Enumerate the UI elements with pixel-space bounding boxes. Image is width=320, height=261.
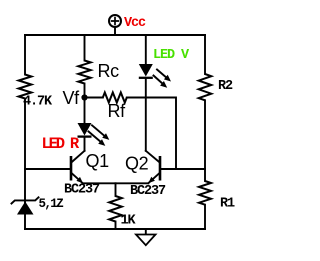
wire Vf to Rf: [88, 97, 103, 99]
wire top rail: [25, 34, 205, 36]
wire Q1 base: [25, 168, 71, 170]
ground: [136, 229, 156, 245]
wire Rc branch top: [84, 35, 86, 61]
svg-text:4.7K: 4.7K: [23, 95, 53, 110]
resistor Rf: [103, 93, 127, 103]
transistor Q1: [71, 151, 85, 184]
wire bottom rail: [25, 228, 205, 230]
svg-text:Q2: Q2: [125, 154, 149, 174]
node Vf junction dot: [81, 94, 87, 100]
resistor R1: [199, 181, 211, 205]
LED R light arrow 2: [89, 132, 106, 146]
svg-text:BC237: BC237: [130, 184, 166, 199]
svg-text:R1: R1: [220, 197, 235, 212]
wire right rail lower: [204, 205, 206, 229]
wire right rail upper: [204, 35, 206, 74]
wire right rail middle: [204, 100, 206, 181]
wire LED V branch top: [145, 35, 147, 64]
Vcc supply symbol: [109, 15, 121, 35]
wire left rail upper: [24, 35, 26, 75]
svg-text:Vcc: Vcc: [124, 16, 146, 31]
wire left rail middle: [24, 99, 26, 230]
resistor 1K: [109, 196, 122, 222]
svg-text:Q1: Q1: [86, 151, 110, 171]
svg-text:Rc: Rc: [98, 61, 120, 81]
svg-text:1K: 1K: [121, 214, 137, 229]
transistor Q2: [146, 151, 160, 183]
resistor Rc: [78, 61, 90, 84]
LED V light arrow 2: [154, 76, 168, 88]
resistor R2: [199, 74, 212, 100]
wire LED R to Q1 collector: [84, 137, 86, 151]
svg-text:LED R: LED R: [42, 135, 80, 153]
LED R diode: [78, 123, 92, 137]
wire Rf to Q2 base drop: [127, 98, 176, 170]
wire LED V to Q2 collector: [145, 78, 147, 151]
LED V light arrow 1: [157, 70, 171, 82]
svg-text:Rf: Rf: [108, 101, 127, 121]
resistor 4.7K: [19, 75, 32, 99]
svg-text:5,1Z: 5,1Z: [39, 197, 64, 211]
svg-text:R2: R2: [218, 79, 233, 94]
wire 1K top: [115, 183, 117, 196]
svg-text:Vf: Vf: [63, 88, 81, 108]
wire emitter common: [83, 182, 149, 184]
svg-text:LED V: LED V: [153, 48, 190, 63]
LED R light arrow 1: [92, 125, 109, 140]
zener diode 5,1Z: [12, 197, 39, 214]
wire 1K bottom: [115, 222, 117, 230]
wire Q2 base: [160, 168, 205, 170]
wire Rc to LED R: [84, 84, 86, 124]
svg-text:BC237: BC237: [64, 183, 100, 198]
LED V diode: [139, 64, 153, 78]
